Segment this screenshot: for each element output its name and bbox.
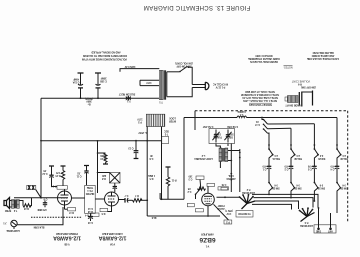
node dot [224, 196, 226, 198]
wire gang to coil [216, 144, 220, 149]
wire: primary tap upper [140, 79, 159, 81]
label SW1 [175, 62, 193, 67]
wire V3B top to R14 [64, 189, 66, 191]
svg-text:KNOB SHAFT: KNOB SHAFT [285, 104, 301, 107]
svg-text:SEC: SEC [164, 130, 169, 132]
svg-text:GRN 6.3V: GRN 6.3V [124, 65, 135, 67]
svg-text:LOOP ANTENNA: LOOP ANTENNA [194, 157, 213, 160]
switch column 4 (SW-2D) [335, 118, 342, 214]
svg-text:C-14: C-14 [87, 207, 93, 210]
bus D [252, 204, 292, 209]
svg-text:GANG: GANG [214, 133, 221, 136]
node junction dot C15B [97, 97, 99, 99]
bus A [252, 194, 318, 207]
svg-text:EARPHONE: EARPHONE [6, 229, 20, 232]
svg-text:R-14: R-14 [51, 184, 57, 187]
wire: 6.3V heater lead [120, 69, 159, 72]
resistor R3 box top [207, 183, 215, 186]
volume control assembly [285, 91, 313, 107]
resistor R6B box below V3A [91, 213, 99, 216]
svg-text:(ON-OFF SW): (ON-OFF SW) [301, 86, 316, 88]
switch column 1 (SW-2A) [267, 133, 274, 195]
bus C [254, 201, 299, 209]
box P2 [224, 220, 232, 224]
rail1 dashed vertical [347, 111, 349, 223]
label interlock [137, 117, 143, 122]
pot plates [298, 92, 300, 106]
svg-text:SW-2E: SW-2E [294, 186, 302, 188]
label bank [254, 120, 260, 125]
svg-text:C-12: C-12 [42, 172, 48, 174]
svg-text:TUNING: TUNING [213, 136, 222, 138]
label V3B tube name [53, 235, 81, 241]
svg-text:60 CYCLE AC: 60 CYCLE AC [213, 82, 228, 85]
svg-text:R-15: R-15 [55, 174, 61, 176]
node dot bus2/147 [146, 140, 148, 142]
svg-text:SW-2D: SW-2D [340, 157, 348, 159]
svg-text:R-17: R-17 [68, 211, 74, 213]
svg-text:C-13: C-13 [128, 146, 134, 148]
label AM OSC [226, 174, 236, 180]
label C15B [100, 77, 107, 82]
resistor R7 zigzag [133, 199, 143, 202]
label SW2 rear [300, 221, 313, 227]
capacitor C15B electrolytic [95, 73, 101, 98]
svg-text:VOLUME CONT: VOLUME CONT [291, 79, 310, 82]
svg-text:CHOKE: CHOKE [237, 110, 246, 112]
resistor R4 box below [195, 209, 203, 212]
svg-text:NOTED K=1000: NOTED K=1000 [255, 54, 273, 56]
label shield box text [85, 186, 94, 194]
label SW-2D lower contact [340, 183, 348, 188]
svg-text:AND NO SIGNAL APPLIED: AND NO SIGNAL APPLIED [91, 50, 121, 53]
node dots bus/column crossings [268, 194, 270, 196]
capacitor C13A near V3B [43, 201, 47, 208]
wire horizontal y216 [147, 215, 220, 217]
wire stub 160 [159, 193, 161, 199]
svg-text:22K: 22K [102, 174, 107, 176]
svg-text:SW-2E: SW-2E [272, 186, 280, 188]
terminal board GND/ANT [314, 207, 336, 233]
svg-text:FROM POINTS INDICATED TO CHASS: FROM POINTS INDICATED TO CHASSIS [82, 54, 127, 57]
jack J1 earphone [11, 220, 17, 229]
svg-text:SW-2E: SW-2E [317, 186, 325, 188]
svg-text:117V: 117V [137, 117, 143, 119]
resistor R16 [23, 204, 31, 207]
resistor R15 w ground [61, 166, 66, 186]
wire R7 to V1 region [141, 199, 148, 201]
wire staircase to col2 [268, 127, 292, 130]
switch column 3 (SW-2C) [312, 124, 319, 201]
svg-text:TO MOTOR: TO MOTOR [238, 212, 251, 214]
resistor R14 box above V3B [57, 186, 68, 190]
switch lever top-left of V1 [195, 188, 202, 200]
svg-text:C-15B: C-15B [100, 80, 107, 82]
rail2 solid [184, 117, 237, 119]
svg-text:NOTE 2 LINE VOLTAGE 117V AC: NOTE 2 LINE VOLTAGE 117V AC [242, 96, 278, 99]
svg-text:470: 470 [307, 164, 312, 167]
wire: tap join vertical [139, 80, 141, 85]
label 6BZ6 pins [217, 204, 225, 210]
svg-text:(6BQ5): (6BQ5) [85, 97, 93, 99]
svg-text:6BZ6: 6BZ6 [199, 236, 215, 243]
svg-text:COIL: COIL [228, 174, 234, 176]
label mixer grid [188, 175, 193, 180]
svg-text:SW-2E: SW-2E [340, 186, 348, 188]
connector E1 box [27, 185, 36, 189]
svg-text:1 MEG: 1 MEG [148, 174, 155, 176]
svg-text:1/2-6AW8A: 1/2-6AW8A [53, 235, 81, 241]
svg-text:VOLTAGE READINGS MADE WITH VTV: VOLTAGE READINGS MADE WITH VTVM [82, 57, 127, 60]
tube V1 6BZ6 [202, 186, 215, 217]
svg-text:220K: 220K [100, 154, 106, 156]
wire mixer box down [199, 180, 202, 189]
wire from R16 up [30, 198, 31, 206]
label pin 7 [225, 209, 233, 214]
svg-text:TONE: TONE [86, 186, 93, 188]
wire: secondary bottom to plug [167, 88, 192, 97]
svg-text:SW-2B: SW-2B [294, 157, 302, 159]
wire: secondary top to switch [167, 71, 180, 73]
connector plug P1 [205, 82, 209, 90]
note block left [248, 54, 280, 63]
svg-text:4.7K: 4.7K [221, 183, 226, 186]
label SW-2C lower contact [317, 183, 325, 188]
switch column 2 (SW-2B) [289, 128, 296, 197]
interlock box [146, 114, 165, 126]
svg-text:NOTE 4 DIAL AT LOW END: NOTE 4 DIAL AT LOW END [245, 90, 275, 93]
svg-text:B+ 255V: B+ 255V [138, 131, 148, 133]
label SW-2A capacitor [262, 164, 267, 169]
component below shield box [88, 213, 93, 221]
svg-text:AND ABOVE IN MMF: AND ABOVE IN MMF [311, 54, 334, 57]
speaker SP1 [4, 198, 10, 209]
wire V1 plate right [217, 196, 241, 198]
svg-text:P-1 117V: P-1 117V [215, 85, 225, 87]
note block: socket voltages table [241, 90, 279, 102]
label V1 tube name [199, 236, 215, 243]
svg-text:NOTES:: NOTES: [283, 66, 293, 69]
label can [101, 174, 106, 179]
svg-text:SW-2A: SW-2A [272, 157, 280, 160]
wire bus y199 [160, 198, 184, 200]
antenna coil L2 [219, 148, 228, 162]
label P1 117VAC [213, 82, 228, 87]
wire V3B plate to network box [72, 197, 85, 199]
capacitor C13 vertical w ground [134, 141, 139, 159]
wire staircase to col1 [268, 132, 270, 134]
resistor R17 box right of V3B [65, 205, 76, 211]
variable capacitor C5A [214, 134, 218, 136]
svg-text:SPKR: SPKR [4, 209, 11, 211]
label inside box left [213, 133, 222, 138]
svg-text:V-3B: V-3B [64, 243, 69, 245]
label SW-2B upper contact [294, 154, 302, 159]
label R13 [164, 130, 169, 135]
label inside box right [227, 133, 234, 138]
label C12 [42, 169, 48, 174]
svg-text:OHMS UNLESS OTHERWISE: OHMS UNLESS OTHERWISE [248, 57, 280, 59]
wire: left vertical feed [40, 98, 42, 198]
svg-text:380V: 380V [86, 100, 92, 102]
ground symbol near C11 [84, 166, 89, 186]
wire V3A cathode down [108, 206, 112, 212]
switch bank SW-1C stack [261, 117, 267, 134]
svg-text:NETWK: NETWK [85, 192, 94, 194]
resistor R3 box below coil [218, 187, 229, 190]
ground symbol x169 [166, 167, 171, 199]
inductor L1 choke on rail2 [237, 116, 246, 118]
diode rectifier Y1 [126, 96, 131, 101]
svg-text:GND: GND [316, 230, 321, 232]
svg-text:SILICON RECT: SILICON RECT [118, 92, 135, 94]
svg-text:C-11: C-11 [76, 175, 82, 177]
svg-text:C-5B OSC: C-5B OSC [227, 125, 238, 127]
svg-text:SW-1 ON-OFF: SW-1 ON-OFF [176, 65, 192, 67]
capacitor C9 below can [113, 183, 117, 192]
note block right [306, 51, 339, 60]
wire jack to right [17, 207, 63, 225]
shield box (tall) [85, 185, 96, 213]
wire: primary tap lower [140, 85, 159, 87]
svg-text:POWER AMPLIFIER: POWER AMPLIFIER [56, 232, 78, 235]
label feed mid [149, 154, 153, 159]
svg-text:POINT: POINT [217, 204, 225, 206]
svg-text:SOCKET VOLTAGES: SOCKET VOLTAGES [249, 103, 272, 106]
label R10 [100, 154, 106, 159]
diagonal wire to P2 [214, 204, 229, 220]
svg-text:LOCK: LOCK [169, 116, 176, 118]
svg-text:AUDIO AMPLIFIER: AUDIO AMPLIFIER [102, 232, 123, 235]
transformer T1 core [163, 70, 165, 99]
wire staircase to col3 [268, 123, 315, 125]
label C15A [72, 78, 79, 84]
svg-text:BLK-GRN: BLK-GRN [33, 225, 44, 227]
wafer switch SW2 rear [299, 207, 315, 221]
rail vertical left 195 [194, 111, 196, 130]
resistor R6 box below V3A [100, 208, 108, 211]
resistor box mixer grid [196, 176, 204, 180]
vertical 238 with arrows [239, 149, 241, 192]
vertical 231 [230, 144, 232, 193]
svg-text:117V: 117V [146, 81, 152, 83]
label SW-2D capacitor [330, 164, 335, 170]
connector box below wafer1 [236, 211, 253, 218]
label L1 [237, 110, 246, 115]
label feed low [148, 174, 155, 179]
tuning gang box [209, 129, 235, 144]
node dot bottom of 41 [40, 197, 42, 199]
svg-text:PC-1: PC-1 [87, 189, 93, 191]
switch SW1 on-off [179, 66, 192, 84]
wire: B+ bus 2 [41, 140, 162, 142]
resistor R1 box left [187, 203, 194, 206]
capacitor C7 coupling [125, 198, 133, 203]
svg-text:V-3A: V-3A [110, 243, 115, 246]
svg-text:40MF: 40MF [72, 78, 79, 81]
wire plate feed vertical [97, 141, 99, 193]
label speaker [4, 209, 11, 211]
svg-text:BELOW ONE IN MF: BELOW ONE IN MF [312, 51, 334, 53]
label C11 [76, 172, 82, 177]
capacitor C15A electrolytic [78, 73, 84, 98]
wire: plug prongs [192, 84, 205, 86]
svg-text:CAPACITANCE VALUES ONE: CAPACITANCE VALUES ONE [306, 57, 339, 60]
dashed linkage line [31, 216, 82, 218]
svg-text:AMPLIFIER: AMPLIFIER [201, 233, 214, 236]
wire V3A plate right [119, 199, 126, 201]
wire E1 to ground bus [36, 190, 41, 198]
svg-text:ANT: ANT [328, 230, 333, 233]
label V3A tube name [98, 235, 126, 241]
capacitor can box with X [97, 172, 120, 183]
wire from T2 to R16 [19, 201, 23, 206]
rail2 vertical left [183, 118, 185, 200]
label SW-2C capacitor [307, 164, 312, 169]
svg-text:(PIN 7): (PIN 7) [225, 209, 233, 211]
resistor R5 box top right of V1 [221, 187, 227, 190]
wire coil down [219, 162, 221, 169]
notes header [283, 66, 293, 69]
svg-text:R-16: R-16 [23, 207, 29, 209]
variable capacitor C5B [226, 134, 230, 136]
label SW-2B lower contact [294, 183, 302, 188]
svg-text:ALIGN: ALIGN [217, 207, 225, 210]
label interlock right [169, 116, 176, 121]
svg-text:C-15A: C-15A [72, 81, 79, 84]
wire: vertical from interlock right [161, 127, 163, 200]
label R15 [55, 171, 61, 176]
svg-text:INTER: INTER [169, 119, 176, 121]
svg-text:R-18: R-18 [87, 210, 93, 212]
resistor R10 beside feed [97, 152, 108, 164]
label B+ under bus [85, 97, 93, 105]
bus B [254, 198, 314, 208]
label shield box text 2 [87, 207, 93, 212]
resistor R13 box on 161 line [162, 137, 169, 144]
svg-text:1.5V: 1.5V [226, 212, 231, 214]
label SW-2B capacitor [284, 164, 289, 169]
svg-text:RESISTANCE VALUES IN: RESISTANCE VALUES IN [250, 60, 278, 63]
tube V3B power amp [58, 191, 72, 205]
capacitor C12 w ground [49, 166, 57, 187]
label loop antenna [194, 154, 213, 160]
wire coil taps [228, 150, 240, 152]
svg-text:R-10: R-10 [100, 157, 106, 159]
node dot bus2 left [40, 140, 42, 142]
wire network box to V3A grid [95, 198, 104, 200]
note underline header [249, 103, 272, 106]
label SW-2A upper contact [272, 154, 280, 160]
node dot C13 top [135, 140, 137, 142]
wire: vertical from interlock left [146, 127, 148, 217]
label SW-2D upper contact [340, 154, 348, 159]
rail1 dashed (AC line) [195, 110, 348, 112]
node dot feed top [97, 140, 99, 142]
ground bus bottom left [14, 197, 68, 199]
dots on 231 line [230, 173, 232, 175]
transformer T1 power, primary winding [159, 70, 163, 99]
svg-text:LOW WASH: LOW WASH [242, 191, 255, 194]
svg-text:NOTE 3 CONTROLS AT MAXIMUM: NOTE 3 CONTROLS AT MAXIMUM [241, 93, 279, 96]
svg-text:NOTE 1 ALL VOLTAGES +-20%: NOTE 1 ALL VOLTAGES +-20% [242, 99, 277, 102]
pot shaft hatched [288, 96, 299, 103]
label SW-2C upper contact [318, 154, 326, 159]
transformer T1 secondary winding [166, 72, 168, 97]
tube V3A audio amp [105, 192, 119, 206]
transformer T2 output [10, 200, 20, 209]
svg-text:R-11: R-11 [171, 179, 177, 181]
label SW-2A lower contact [272, 183, 280, 188]
wafer switch SW2 front [239, 194, 255, 209]
svg-text:OSC: OSC [228, 136, 233, 138]
svg-text:SW-2C: SW-2C [318, 157, 326, 159]
resistor R2 zigzag above V1 [198, 187, 206, 190]
node junction dot C15A [80, 97, 82, 99]
note block: voltage measurement note [82, 50, 127, 60]
svg-text:C-10: C-10 [87, 221, 93, 223]
svg-text:SECT: SECT [227, 133, 234, 135]
svg-text:LOW WASH: LOW WASH [300, 224, 313, 227]
svg-text:1/2-6AW8A: 1/2-6AW8A [98, 235, 126, 241]
label SW2 front [242, 188, 255, 194]
label V1 grid [187, 187, 191, 192]
svg-text:(ON VOL CONT): (ON VOL CONT) [175, 62, 193, 64]
svg-text:FIGURE 13. SCHEMATIC DIAGRAM: FIGURE 13. SCHEMATIC DIAGRAM [144, 4, 251, 10]
svg-text:BLK: BLK [151, 216, 156, 218]
svg-text:C-5A ANT: C-5A ANT [202, 125, 213, 128]
svg-text:470 MMF: 470 MMF [37, 208, 47, 211]
svg-text:C-17: C-17 [254, 123, 260, 125]
svg-text:20MF: 20MF [100, 77, 107, 79]
wire: B+ bus top [41, 97, 160, 99]
